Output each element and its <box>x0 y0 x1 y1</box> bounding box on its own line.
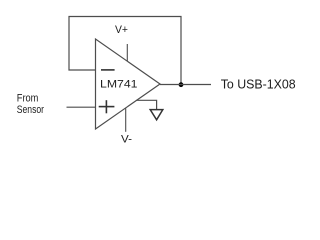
wire: feedback loop from output node to inverting input <box>69 17 181 85</box>
inverting input marker (minus) <box>101 69 115 71</box>
svg-text:V+: V+ <box>115 24 128 36</box>
ground <box>150 110 163 120</box>
pin V- (negative supply) <box>125 108 127 132</box>
op-amp U1 (LM741) triangle body <box>96 39 161 129</box>
svg-text:To USB-1X08: To USB-1X08 <box>221 77 296 91</box>
wire: from op-amp lower edge to ground <box>136 100 156 109</box>
non-inverting input marker (plus) <box>99 100 115 113</box>
svg-text:LM741: LM741 <box>100 79 138 91</box>
svg-text:Sensor: Sensor <box>17 104 44 116</box>
wire: output from op-amp apex to USB label <box>160 84 211 86</box>
pin V+ (positive supply) <box>126 44 128 61</box>
node A: output junction dot <box>179 82 184 87</box>
wire: input from sensor to non-inverting input <box>67 106 96 108</box>
label From Sensor <box>17 93 44 116</box>
svg-text:From: From <box>17 93 39 105</box>
svg-text:V-: V- <box>121 134 132 146</box>
